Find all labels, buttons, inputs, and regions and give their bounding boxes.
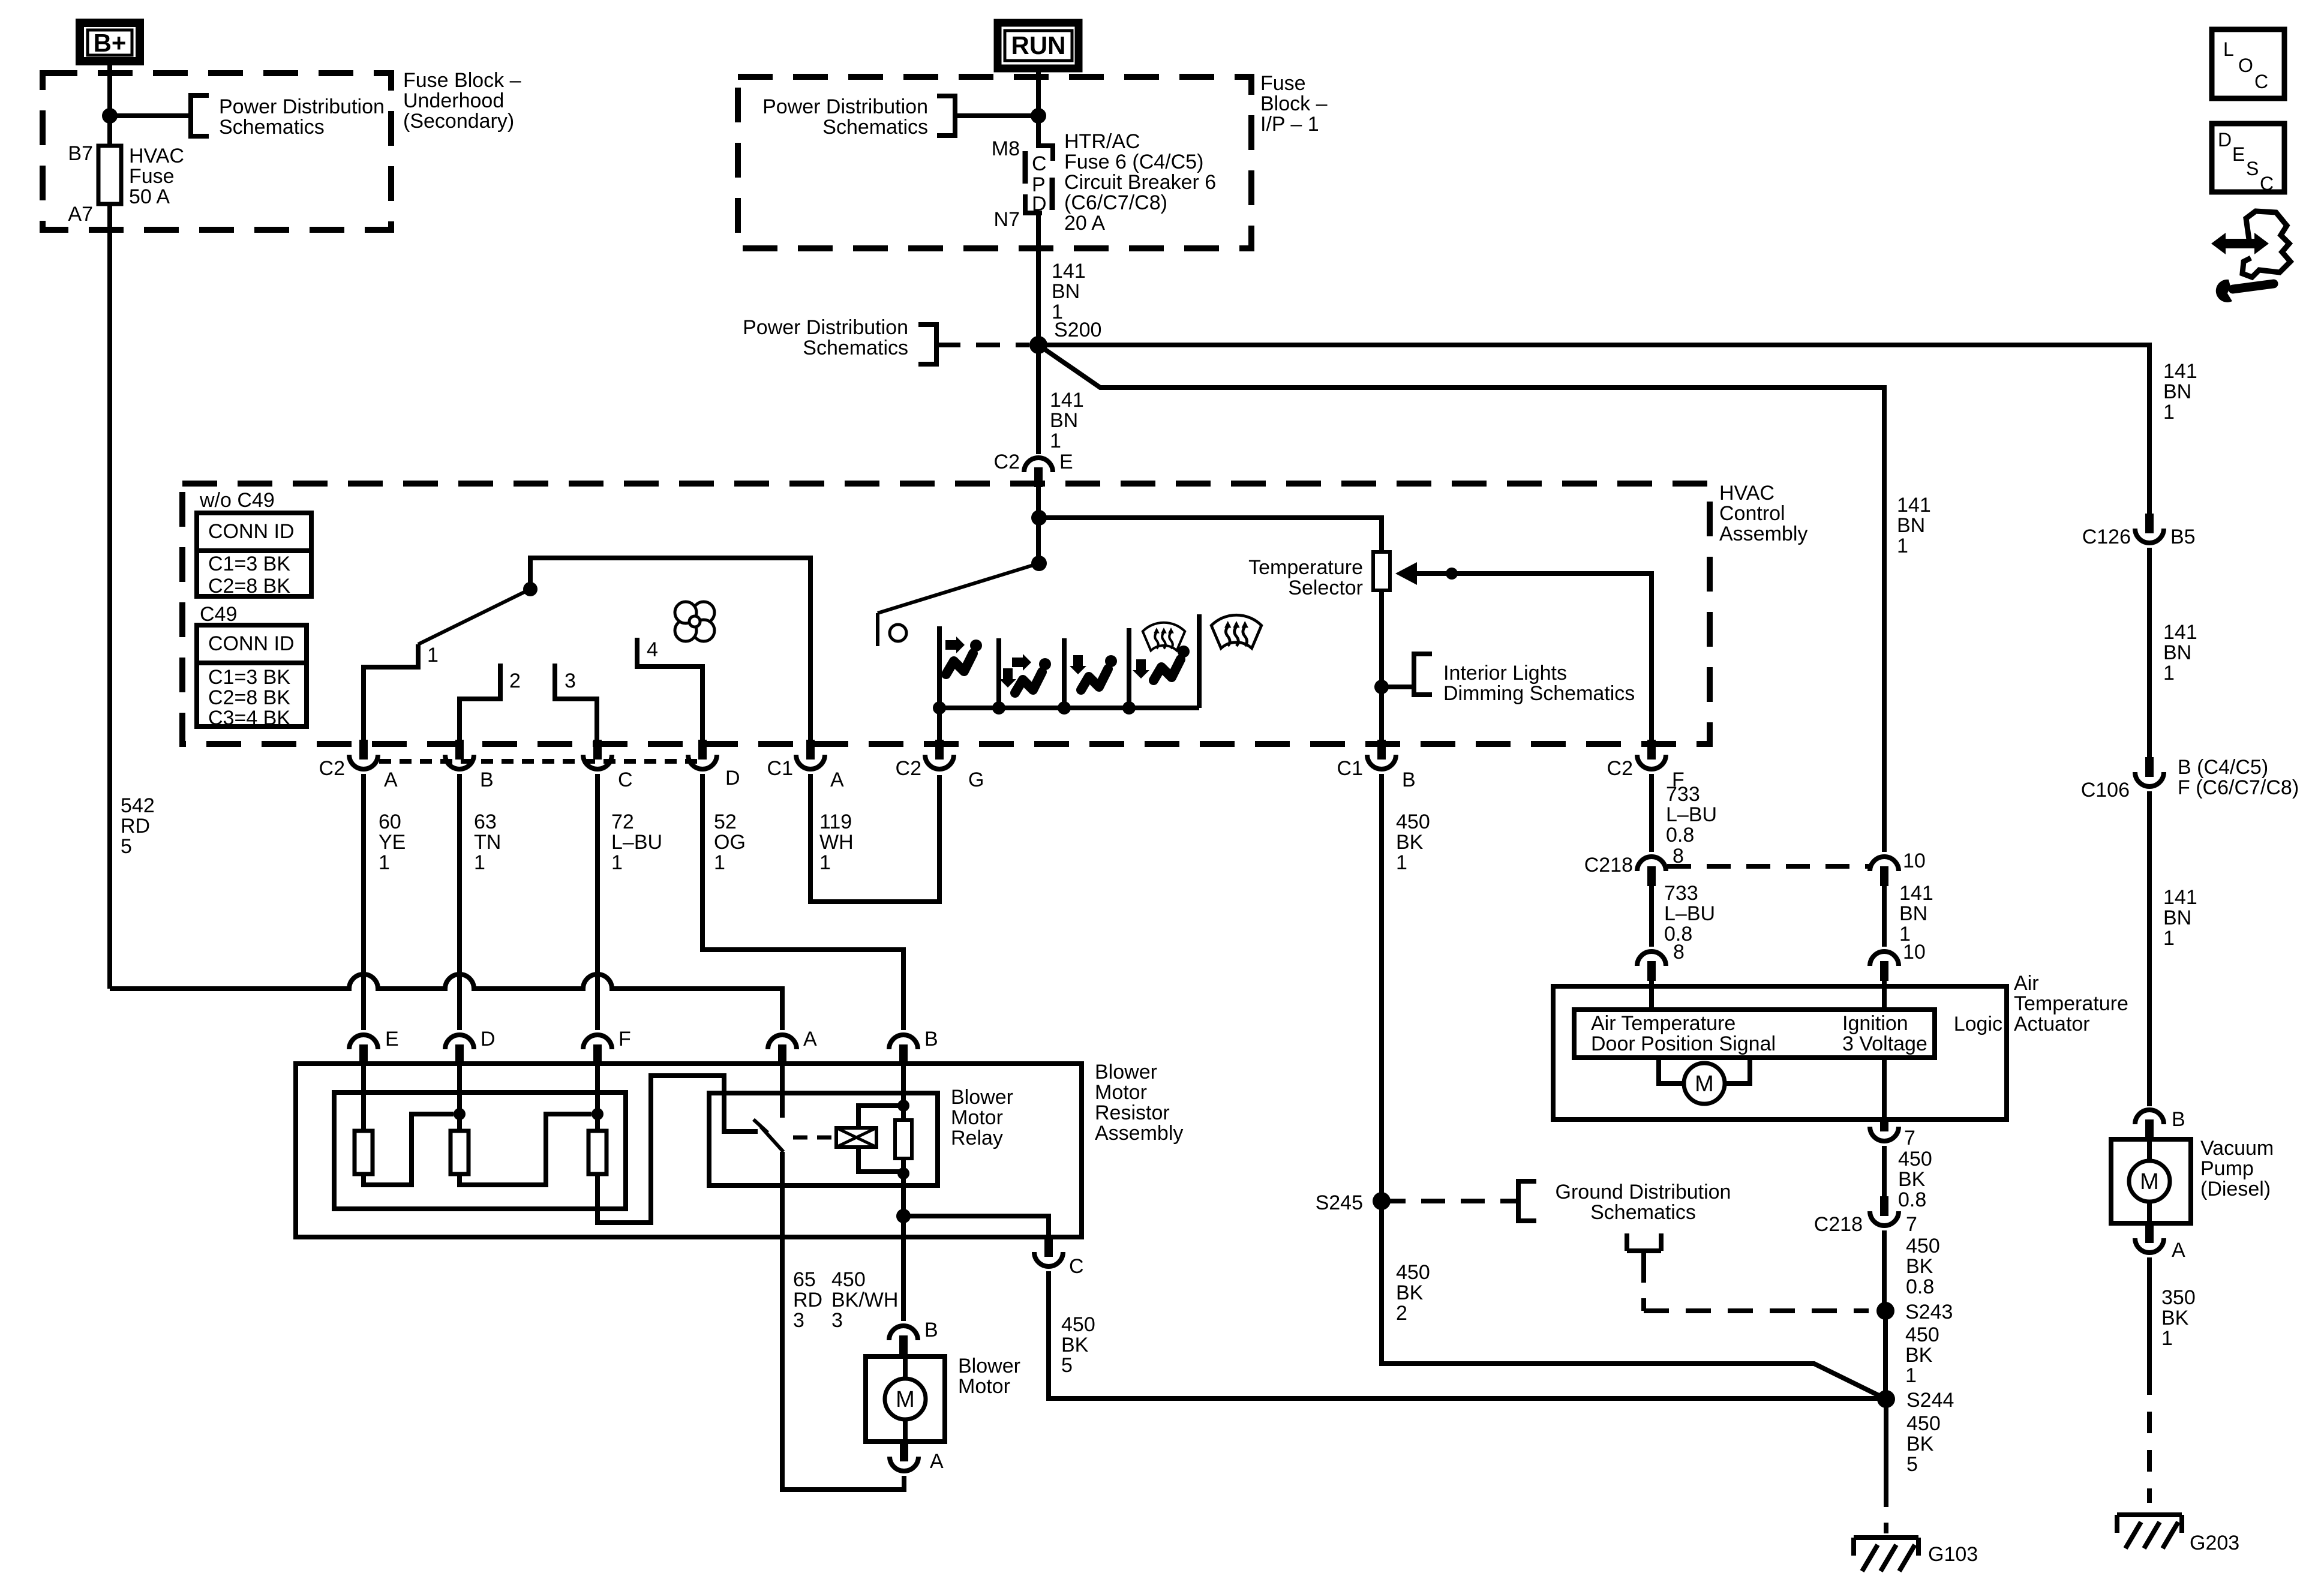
svg-text:Interior Lights: Interior Lights <box>1443 662 1567 685</box>
relay switch blade <box>753 1119 783 1152</box>
svg-text:C2=8 BK: C2=8 BK <box>208 575 290 598</box>
label M8 <box>992 137 1020 160</box>
resistor network inner box <box>334 1092 626 1209</box>
label 542 RD 5 <box>121 794 155 858</box>
wire to power distribution bracket <box>110 113 191 118</box>
svg-text:L–BU: L–BU <box>1666 803 1717 826</box>
wire to power distribution bracket 2 <box>955 113 1038 118</box>
svg-text:BK/WH: BK/WH <box>831 1289 898 1311</box>
svg-text:Air Temperature: Air Temperature <box>1591 1012 1736 1035</box>
ground distribution stub symbol <box>1627 1233 1661 1261</box>
svg-text:3: 3 <box>793 1309 804 1332</box>
connector C1 B <box>1337 740 1416 791</box>
svg-text:Block –: Block – <box>1260 92 1328 115</box>
blower switch feed from C1 A <box>530 558 810 741</box>
label 119 WH 1 <box>819 810 854 874</box>
svg-text:HVAC: HVAC <box>1719 482 1774 505</box>
svg-text:C: C <box>2254 71 2268 92</box>
bracket power distribution (left) <box>191 95 209 136</box>
label A7 <box>68 203 93 226</box>
svg-text:Circuit Breaker 6: Circuit Breaker 6 <box>1064 171 1216 194</box>
node relay top <box>897 1100 909 1112</box>
connector actuator 10 <box>1870 941 1926 981</box>
legend LOC box <box>2212 29 2284 98</box>
svg-text:C: C <box>1069 1255 1084 1278</box>
temp selector wiper arrow <box>1395 562 1652 740</box>
svg-text:G: G <box>968 769 984 791</box>
connector C126 B5 <box>2082 514 2196 548</box>
svg-text:63: 63 <box>474 810 497 833</box>
CPD circuit protection device symbol <box>1025 144 1053 215</box>
svg-text:D: D <box>725 767 740 789</box>
wire coil top branch <box>858 1106 903 1128</box>
label power distribution schematics (IP) <box>762 95 928 139</box>
label 450 BK 5 (S244) <box>1906 1412 1941 1476</box>
svg-text:M8: M8 <box>992 137 1020 160</box>
svg-text:Control: Control <box>1719 502 1785 525</box>
svg-text:BK: BK <box>1905 1344 1933 1367</box>
svg-text:350: 350 <box>2161 1286 2196 1309</box>
svg-text:Selector: Selector <box>1288 577 1363 599</box>
svg-text:60: 60 <box>379 810 401 833</box>
power symbol RUN <box>998 23 1079 68</box>
svg-text:7: 7 <box>1906 1213 1917 1236</box>
label 52 OG 1 <box>714 810 746 874</box>
svg-text:BN: BN <box>1897 514 1925 537</box>
wire R2 to F <box>460 1114 591 1185</box>
dashed wire S245 to bracket <box>1382 1199 1518 1203</box>
vacuum pump box <box>2111 1139 2191 1223</box>
label 450 BK 2 <box>1396 1261 1430 1325</box>
connector actuator 7 <box>1870 1119 1915 1149</box>
svg-text:BK: BK <box>1906 1255 1933 1278</box>
svg-text:CONN ID: CONN ID <box>208 520 295 543</box>
label w/o C49 <box>199 489 275 512</box>
label HVAC Fuse 50 A <box>129 145 184 208</box>
connector vacuum pump A <box>2135 1223 2185 1262</box>
wire 63 TN <box>457 774 462 1030</box>
wire ignition voltage down <box>1882 1058 1887 1119</box>
svg-text:141: 141 <box>1052 260 1086 283</box>
svg-text:L–BU: L–BU <box>611 831 662 854</box>
svg-text:733: 733 <box>1664 882 1698 905</box>
wire temp selector down <box>1379 590 1384 740</box>
label 450 BK 1 (C1 B) <box>1396 810 1430 874</box>
svg-text:0.8: 0.8 <box>1666 824 1694 846</box>
actuator motor M <box>1659 1058 1750 1104</box>
connector C2 B <box>445 740 494 791</box>
svg-text:G203: G203 <box>2190 1532 2239 1554</box>
wire 450 BK 5 to S244 <box>1049 1271 1886 1398</box>
svg-text:C218: C218 <box>1814 1213 1863 1236</box>
svg-text:450: 450 <box>1906 1235 1940 1257</box>
svg-text:1: 1 <box>474 851 485 874</box>
blower switch contact 1 <box>364 644 439 740</box>
connector C2 G <box>896 740 984 791</box>
bracket power distribution (S200) <box>918 325 936 364</box>
splice S243 <box>1876 1301 1953 1323</box>
splice S245 <box>1316 1191 1391 1214</box>
label blower motor resistor assembly <box>1095 1061 1183 1145</box>
svg-text:52: 52 <box>714 810 737 833</box>
resistor R1 <box>355 1131 373 1174</box>
svg-text:2: 2 <box>509 670 521 692</box>
label 63 TN 1 <box>474 810 501 874</box>
svg-text:L: L <box>2223 38 2234 60</box>
svg-text:D: D <box>2218 129 2232 151</box>
svg-text:B7: B7 <box>68 142 93 165</box>
label 72 L-BU 1 <box>611 810 662 874</box>
connector C <box>1034 1237 1084 1278</box>
svg-text:1: 1 <box>1897 535 1908 557</box>
svg-text:BK: BK <box>1396 831 1424 854</box>
conn id table 2 <box>197 625 307 730</box>
svg-text:Ignition: Ignition <box>1842 1012 1908 1035</box>
svg-text:Assembly: Assembly <box>1095 1122 1183 1145</box>
wire 450 BK 0.8 lower <box>1882 1230 1887 1311</box>
svg-text:B: B <box>1402 769 1416 791</box>
svg-text:C: C <box>2260 173 2274 194</box>
svg-text:Assembly: Assembly <box>1719 523 1807 545</box>
svg-text:0.8: 0.8 <box>1906 1275 1934 1298</box>
wire 450 BK 0.8 upper <box>1882 1146 1887 1196</box>
svg-text:B: B <box>480 769 494 791</box>
svg-text:C3=4 BK: C3=4 BK <box>208 707 290 730</box>
legend DESC box <box>2212 124 2284 194</box>
svg-text:S245: S245 <box>1316 1191 1363 1214</box>
svg-text:50 A: 50 A <box>129 185 170 208</box>
connector A <box>768 1028 817 1064</box>
svg-text:542: 542 <box>121 794 155 817</box>
actuator logic box <box>1574 1010 1935 1058</box>
dashed connector link C218 <box>1667 864 1869 869</box>
connector blower A <box>890 1442 944 1473</box>
wire R1 to D <box>364 1114 454 1185</box>
svg-text:Pump: Pump <box>2200 1157 2254 1180</box>
fuse HVAC 50A <box>98 146 121 204</box>
node 450 BK/WH split <box>896 1209 911 1223</box>
relay actuating dash <box>793 1136 833 1140</box>
svg-text:Fuse: Fuse <box>129 165 175 188</box>
ground G203 <box>2117 1515 2239 1554</box>
label interior lights dimming <box>1443 662 1635 705</box>
svg-text:Fuse: Fuse <box>1260 72 1306 95</box>
svg-text:C2: C2 <box>994 451 1020 473</box>
svg-text:w/o C49: w/o C49 <box>199 489 275 512</box>
mode switch bus <box>939 706 1199 710</box>
svg-text:1: 1 <box>1050 430 1061 452</box>
svg-text:Blower: Blower <box>1095 1061 1157 1083</box>
connector E <box>349 1028 399 1064</box>
svg-text:BN: BN <box>2163 380 2191 403</box>
mode switch bar 1 and G wire <box>937 626 942 740</box>
svg-text:1: 1 <box>427 644 439 667</box>
svg-text:1: 1 <box>1396 851 1407 874</box>
svg-text:Ground Distribution: Ground Distribution <box>1556 1181 1731 1203</box>
svg-text:B: B <box>2172 1108 2185 1131</box>
vacuum pump motor M <box>2129 1139 2170 1223</box>
wire 8 into actuator <box>1649 981 1654 1010</box>
wire S243 to S244 <box>1883 1311 1888 1399</box>
svg-text:10: 10 <box>1903 941 1926 963</box>
label 141 BN 1 (far right) <box>2163 360 2197 424</box>
mode switch wiper contact <box>890 625 906 641</box>
svg-text:BN: BN <box>2163 641 2191 664</box>
svg-text:3: 3 <box>831 1309 843 1332</box>
svg-text:Relay: Relay <box>951 1127 1003 1149</box>
fuse block underhood dashed box <box>43 73 391 230</box>
svg-text:450: 450 <box>1396 810 1430 833</box>
svg-text:450: 450 <box>1898 1148 1932 1170</box>
label air temperature door position signal <box>1591 1012 1776 1055</box>
wire 65 RD down <box>782 1152 904 1490</box>
wire feed to temp selector <box>1039 518 1382 552</box>
wire D to resistor 2 <box>457 1064 462 1131</box>
connector actuator 8 <box>1637 941 1685 981</box>
svg-text:YE: YE <box>379 831 406 854</box>
resistor R3 <box>588 1131 606 1174</box>
label power distribution schematics (left) <box>219 95 385 139</box>
svg-text:Motor: Motor <box>951 1106 1003 1129</box>
label 350 BK 1 <box>2161 1286 2196 1350</box>
wire R3 to relay <box>597 1076 758 1223</box>
svg-text:B+: B+ <box>94 29 127 57</box>
label 65 RD 3 <box>793 1268 822 1332</box>
wire 733 L-BU upper <box>1649 774 1654 852</box>
blower motor relay box <box>709 1093 938 1185</box>
svg-text:2: 2 <box>1396 1302 1407 1325</box>
svg-text:G103: G103 <box>1928 1543 1978 1566</box>
svg-text:450: 450 <box>1906 1412 1941 1435</box>
svg-text:Temperature: Temperature <box>2014 992 2128 1015</box>
svg-text:Power Distribution: Power Distribution <box>762 95 928 118</box>
svg-text:L–BU: L–BU <box>1664 902 1715 925</box>
fuse block IP dashed box <box>738 77 1251 248</box>
label power distribution schematics (S200) <box>743 316 908 359</box>
label 60 YE 1 <box>379 810 406 874</box>
svg-text:WH: WH <box>819 831 854 854</box>
svg-text:1: 1 <box>2163 401 2175 424</box>
splice S244 <box>1877 1389 1954 1412</box>
wire 119 WH jumper <box>810 774 939 902</box>
mode icon vent <box>945 637 982 674</box>
label HVAC control assembly <box>1719 482 1807 545</box>
svg-text:C1: C1 <box>767 757 793 780</box>
label 450 BK 0.8 lower <box>1906 1235 1940 1298</box>
svg-text:20 A: 20 A <box>1064 212 1105 235</box>
svg-text:Fuse Block –: Fuse Block – <box>403 69 521 92</box>
connector C218 8 <box>1584 845 1684 886</box>
mode icon blend <box>1133 623 1190 680</box>
svg-text:F: F <box>618 1028 631 1050</box>
svg-text:141: 141 <box>2163 886 2197 909</box>
svg-text:7: 7 <box>1904 1127 1915 1149</box>
connector C2 F <box>1607 740 1685 791</box>
mode switch bar 4 <box>1127 628 1131 708</box>
svg-text:Logic: Logic <box>1954 1013 2002 1035</box>
wire 450 BK/WH down <box>901 1216 906 1321</box>
svg-text:1: 1 <box>714 851 725 874</box>
svg-text:(Secondary): (Secondary) <box>403 110 514 133</box>
wire B into relay <box>901 1064 906 1120</box>
label HTR/AC fuse 6 circuit breaker <box>1064 130 1216 235</box>
svg-text:B: B <box>924 1319 938 1341</box>
label 733 L-BU 0.8 upper <box>1666 783 1717 846</box>
svg-text:Schematics: Schematics <box>1590 1201 1696 1224</box>
label 450 BK 5 (C) <box>1061 1313 1095 1377</box>
svg-text:C126: C126 <box>2082 526 2131 548</box>
connector blower B <box>889 1319 938 1355</box>
node on B+ wire <box>102 108 118 124</box>
label C49 <box>200 603 237 626</box>
mode switch bar 2 <box>996 638 1001 708</box>
svg-text:141: 141 <box>1897 494 1931 517</box>
mode bus junctions <box>933 701 1136 715</box>
svg-text:Motor: Motor <box>1095 1081 1147 1104</box>
svg-text:Power Distribution: Power Distribution <box>219 95 385 118</box>
svg-text:1: 1 <box>1905 1364 1917 1387</box>
svg-text:HVAC: HVAC <box>129 145 184 167</box>
svg-text:A: A <box>930 1450 944 1473</box>
node blower switch feed lower <box>1031 556 1047 571</box>
label 141 BN 1 (mid right) <box>1897 494 1931 557</box>
label B7 <box>68 142 93 165</box>
label ignition 3 voltage <box>1842 1012 1927 1055</box>
svg-text:1: 1 <box>2161 1327 2173 1350</box>
svg-text:S: S <box>2246 158 2259 179</box>
svg-text:M: M <box>896 1387 915 1412</box>
legend diagnostic icon <box>2211 211 2290 302</box>
wire 60 YE <box>361 774 366 1030</box>
svg-text:Resistor: Resistor <box>1095 1101 1170 1124</box>
label blower motor relay <box>951 1086 1013 1149</box>
svg-text:1: 1 <box>611 851 623 874</box>
svg-text:E: E <box>1059 451 1073 473</box>
svg-text:450: 450 <box>1396 1261 1430 1284</box>
connector C218 7 <box>1814 1196 1917 1236</box>
wire 141 BN lower <box>1882 886 1887 947</box>
connector F <box>583 1028 631 1064</box>
svg-text:A: A <box>384 769 398 791</box>
svg-text:Actuator: Actuator <box>2014 1013 2090 1035</box>
svg-text:BK: BK <box>1061 1334 1089 1356</box>
svg-text:4: 4 <box>647 638 658 661</box>
node F <box>591 1108 603 1120</box>
svg-text:Dimming Schematics: Dimming Schematics <box>1443 682 1635 705</box>
svg-text:10: 10 <box>1903 849 1926 872</box>
svg-text:F (C6/C7/C8): F (C6/C7/C8) <box>2178 776 2299 799</box>
svg-text:72: 72 <box>611 810 634 833</box>
label 450 BK/WH 3 <box>831 1268 898 1332</box>
svg-text:141: 141 <box>1050 389 1084 412</box>
svg-text:1: 1 <box>2163 662 2175 685</box>
resistor R2 <box>451 1131 469 1174</box>
wire CPD to S200 <box>1036 212 1041 345</box>
svg-text:C218: C218 <box>1584 854 1633 876</box>
svg-text:5: 5 <box>121 835 132 858</box>
svg-text:TN: TN <box>474 831 501 854</box>
svg-text:65: 65 <box>793 1268 816 1291</box>
svg-text:RD: RD <box>793 1289 822 1311</box>
defrost icon <box>1211 615 1262 648</box>
mode icon floor <box>1070 655 1117 690</box>
label ground distribution schematics <box>1556 1181 1731 1224</box>
power symbol B+ <box>80 23 140 61</box>
svg-text:A: A <box>2172 1239 2185 1262</box>
blower switch contact 4 <box>637 638 702 740</box>
svg-text:C2: C2 <box>896 757 921 780</box>
svg-text:A: A <box>803 1028 817 1050</box>
svg-text:BK: BK <box>1396 1281 1424 1304</box>
svg-text:5: 5 <box>1061 1354 1073 1377</box>
mode icon bilevel <box>999 654 1051 693</box>
connector C2 E <box>994 451 1073 487</box>
label 141 BN 1 (C106) <box>2163 886 2197 950</box>
label 450 BK 1 (S243) <box>1905 1323 1939 1387</box>
svg-text:BN: BN <box>1052 280 1080 303</box>
svg-text:0.8: 0.8 <box>1898 1188 1926 1211</box>
splice S200 <box>1029 336 1047 354</box>
label 141 BN 1 (above S200) <box>1052 260 1086 323</box>
bracket power distribution (IP) <box>937 96 955 136</box>
svg-text:B5: B5 <box>2170 526 2196 548</box>
wire 350 BK <box>2147 1257 2152 1503</box>
svg-text:Air: Air <box>2014 972 2039 995</box>
label 450 BK 0.8 upper <box>1898 1148 1932 1211</box>
svg-text:C: C <box>1032 152 1047 175</box>
svg-text:BK: BK <box>1898 1168 1926 1191</box>
svg-text:N7: N7 <box>994 208 1020 231</box>
dotted connector link <box>379 759 697 764</box>
svg-text:119: 119 <box>819 810 852 833</box>
wire 72 L-BU <box>595 774 600 1030</box>
svg-text:S200: S200 <box>1054 319 1101 341</box>
svg-text:RUN: RUN <box>1011 31 1066 59</box>
connector D <box>445 1028 496 1064</box>
svg-text:Schematics: Schematics <box>803 337 908 359</box>
wire to connector C <box>903 1216 1049 1237</box>
svg-text:C1=3 BK: C1=3 BK <box>208 553 290 575</box>
svg-text:5: 5 <box>1906 1453 1918 1476</box>
blower switch contact 2 <box>460 664 521 740</box>
dashed wire stub to S243 <box>1644 1261 1869 1311</box>
blower switch blade <box>418 589 530 644</box>
node relay bottom <box>897 1167 909 1179</box>
wire E to resistor 1 <box>361 1064 366 1131</box>
svg-text:Temperature: Temperature <box>1248 556 1363 579</box>
svg-text:B (C4/C5): B (C4/C5) <box>2178 756 2268 779</box>
label S200 <box>1054 319 1101 341</box>
svg-text:Fuse 6 (C4/C5): Fuse 6 (C4/C5) <box>1064 151 1203 173</box>
wire 52 OG <box>702 774 903 1030</box>
connector C1 A <box>767 740 844 791</box>
connector C2 A <box>319 740 398 791</box>
svg-text:Schematics: Schematics <box>219 116 325 139</box>
svg-text:141: 141 <box>2163 360 2197 383</box>
wire S200 down to C2 E <box>1036 345 1041 454</box>
node D <box>454 1108 466 1120</box>
svg-text:141: 141 <box>1899 882 1933 905</box>
svg-text:C2=8 BK: C2=8 BK <box>208 686 290 709</box>
svg-text:C1: C1 <box>1337 757 1363 780</box>
svg-text:HTR/AC: HTR/AC <box>1064 130 1140 153</box>
connector C106 <box>2081 756 2299 801</box>
svg-text:Schematics: Schematics <box>822 116 928 139</box>
label vacuum pump diesel <box>2200 1137 2274 1200</box>
label air temperature actuator <box>2014 972 2128 1035</box>
svg-text:O: O <box>2238 55 2253 76</box>
svg-text:BN: BN <box>1050 409 1078 432</box>
